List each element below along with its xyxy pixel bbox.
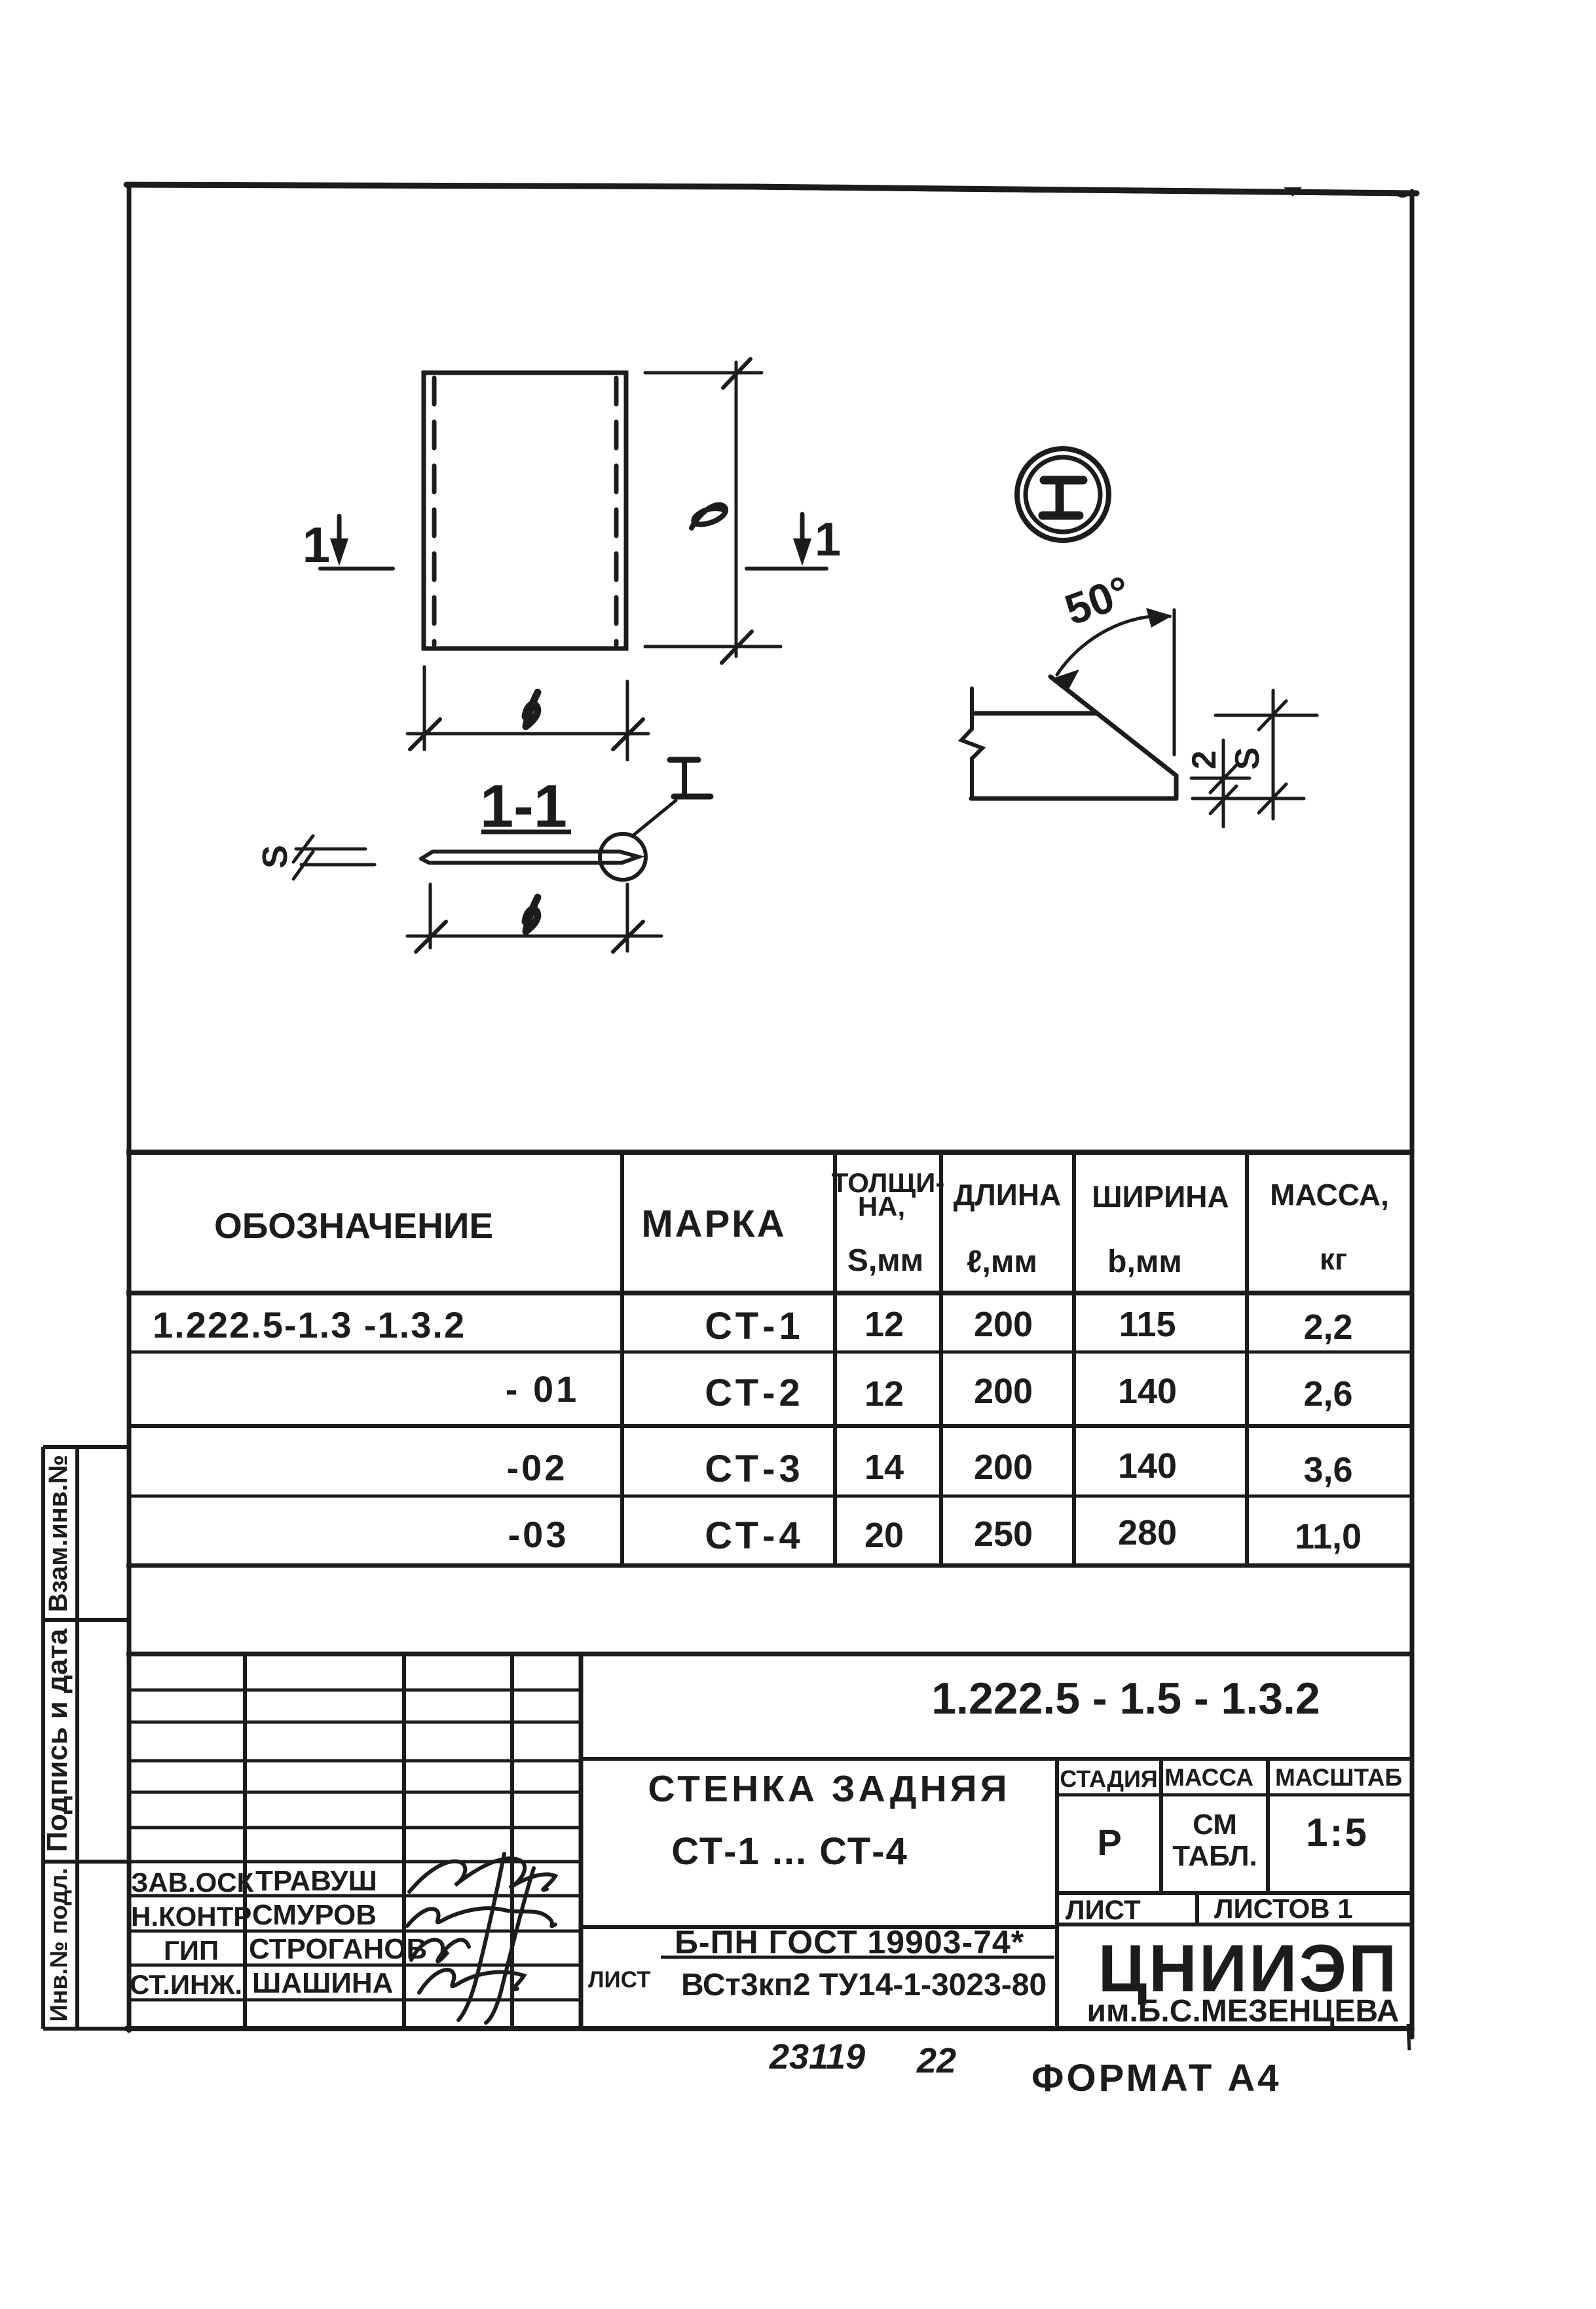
page border bottom [126,2026,1412,2031]
svg-text:200: 200 [974,1305,1033,1344]
svg-text:1: 1 [815,514,841,566]
table column line 5 [1245,1152,1249,1566]
table row line 3 [128,1495,1412,1498]
svg-text:ГИП: ГИП [164,1935,219,1966]
svg-text:ШАШИНА: ШАШИНА [252,1967,393,1999]
dimension b bottom tick right [613,922,643,952]
dimension b top tick right [613,719,643,749]
plan view rectangle [424,373,626,648]
section mark 1 right arrow [800,514,805,558]
svg-text:14: 14 [864,1448,904,1487]
svg-text:СТ-1: СТ-1 [705,1305,804,1347]
dimension S section ticks [293,836,313,862]
section label underline [481,830,571,835]
svg-text:20: 20 [864,1516,904,1555]
dimension l tick top [723,359,751,388]
svg-text:S: S [1229,747,1267,770]
stamp list row bottom [1057,1923,1412,1926]
detail label I [670,757,698,763]
svg-text:НА,: НА, [858,1191,905,1222]
detail I marker circle inner [1026,457,1100,532]
svg-text:200: 200 [974,1448,1033,1487]
plan dashed line left [432,378,437,645]
svg-text:-02: -02 [507,1447,568,1488]
svg-text:ФОРМАТ А4: ФОРМАТ А4 [1031,2057,1282,2099]
margin box bottom [43,2027,126,2031]
material fraction line [661,1956,1054,1959]
svg-text:СМУРОВ: СМУРОВ [252,1899,377,1931]
svg-text:23119: 23119 [769,2037,865,2076]
svg-text:СТ.ИНЖ.: СТ.ИНЖ. [130,1969,242,2000]
margin column inner line [75,1447,79,2029]
svg-text:ЛИСТ: ЛИСТ [1066,1894,1141,1925]
svg-text:МАСШТАБ: МАСШТАБ [1275,1764,1402,1791]
dimension b top tick left [410,719,440,749]
svg-text:1.222.5-1.3 -1.3.2: 1.222.5-1.3 -1.3.2 [153,1304,466,1345]
page border top [126,185,1417,193]
signature grid h lines [129,1689,581,1692]
svg-text:22: 22 [916,2041,956,2080]
dimension l line [735,362,738,656]
detail I marker circle outer [1017,449,1109,540]
stamp name box bottom [581,1925,1057,1929]
detail dimension extension chamfer [1191,777,1250,780]
section 1-1 plate [421,852,639,863]
svg-text:ТРАВУШ: ТРАВУШ [255,1865,377,1897]
dimension b bottom line [407,935,661,938]
chamfer detail left edge with break [961,688,982,798]
svg-text:-03: -03 [508,1514,569,1555]
title block designation row bottom [581,1757,1412,1761]
svg-text:b,мм: b,мм [1107,1245,1182,1279]
detail I marker glyph [1044,476,1083,485]
page border right [1410,191,1415,2037]
svg-text:ОБОЗНАЧЕНИЕ: ОБОЗНАЧЕНИЕ [214,1205,493,1246]
table bottom [126,1564,1412,1568]
svg-text:ЗАВ.ОСК: ЗАВ.ОСК [131,1867,254,1898]
dimension l label [692,505,726,528]
margin column outer line [41,1447,45,2029]
svg-text:Б-ПН ГОСТ 19903-74*: Б-ПН ГОСТ 19903-74* [675,1924,1024,1961]
svg-text:СТАДИЯ: СТАДИЯ [1060,1765,1158,1792]
svg-text:3,6: 3,6 [1303,1450,1352,1490]
svg-text:- 01: - 01 [506,1368,580,1410]
detail dimension S line [1272,690,1275,819]
svg-text:МАССА: МАССА [1164,1764,1253,1791]
detail dimension extension bottom [1193,797,1304,800]
svg-text:Инв.№ подл.: Инв.№ подл. [45,1868,72,2021]
svg-text:Н.КОНТР: Н.КОНТР [131,1901,251,1932]
dimension l extension top [645,371,762,375]
svg-text:ДЛИНА: ДЛИНА [954,1178,1062,1212]
svg-text:2,6: 2,6 [1303,1374,1352,1414]
angle dimension arc [1057,616,1170,675]
stamp col massa left [1159,1759,1163,1893]
svg-text:12: 12 [864,1374,904,1414]
svg-text:ВСт3кп2 ТУ14-1-3023-80: ВСт3кп2 ТУ14-1-3023-80 [681,1968,1047,2002]
chamfer detail sloped face [1050,677,1176,776]
table column line 4 [1072,1152,1076,1566]
table row line 1 [128,1351,1412,1354]
signature scribbles [407,1854,555,2023]
chamfer detail bottom edge [971,797,1176,801]
signature grid v lines [243,1654,247,2029]
page border left [127,184,132,2031]
svg-text:кг: кг [1320,1242,1347,1276]
svg-text:Взам.инв.№: Взам.инв.№ [44,1455,73,1612]
svg-text:S: S [255,845,295,869]
svg-text:115: 115 [1119,1305,1176,1344]
title block top [126,1652,1412,1657]
table header bottom [126,1291,1412,1296]
dimension b bottom extension right [626,884,629,951]
stamp list divider [1195,1893,1199,1924]
svg-text:250: 250 [974,1514,1033,1554]
svg-text:S,мм: S,мм [847,1243,923,1278]
right border bottom tick [1408,2024,1409,2050]
table column line 3 [939,1152,943,1566]
chamfer detail top edge [973,711,1096,716]
svg-text:СТРОГАНОВ: СТРОГАНОВ [249,1933,427,1965]
svg-text:СТЕНКА ЗАДНЯЯ: СТЕНКА ЗАДНЯЯ [648,1768,1010,1810]
detail circle on plate [600,834,646,880]
plan dashed line right [614,378,619,645]
dimension b top extension left [423,667,426,749]
svg-text:140: 140 [1118,1372,1177,1411]
svg-text:2: 2 [1185,751,1223,770]
svg-text:ЛИСТОВ 1: ЛИСТОВ 1 [1214,1893,1353,1924]
stamp header underline [1057,1793,1412,1797]
stamp col masshtab left [1266,1759,1270,1893]
dimension b bottom extension left [429,884,432,948]
svg-text:200: 200 [974,1372,1033,1411]
svg-text:1: 1 [303,517,330,573]
svg-text:2,2: 2,2 [1303,1307,1352,1347]
angle dimension vertical leg [1173,610,1176,755]
svg-text:280: 280 [1118,1513,1177,1552]
svg-text:ℓ,мм: ℓ,мм [967,1245,1037,1279]
dimension b bottom tick left [416,922,446,952]
dimension S section extension top [296,848,365,851]
svg-text:11,0: 11,0 [1295,1517,1362,1556]
table row line 2 [128,1424,1412,1428]
svg-text:1.222.5 - 1.5 - 1.3.2: 1.222.5 - 1.5 - 1.3.2 [931,1674,1320,1723]
stamp col stadia left [1055,1759,1059,2029]
svg-text:Р: Р [1097,1822,1121,1863]
margin box top [43,1445,129,1449]
svg-text:СТ-4: СТ-4 [705,1514,804,1557]
dimension l extension bottom [645,645,781,648]
detail dimension extension top [1216,714,1317,717]
margin box divider 1 [43,1618,129,1622]
dimension b top label [525,692,538,726]
svg-text:12: 12 [864,1305,904,1344]
svg-text:СТ-2: СТ-2 [705,1372,804,1414]
stamp values bottom [1057,1891,1412,1895]
svg-text:Подпись и дата: Подпись и дата [41,1628,73,1852]
svg-text:ШИРИНА: ШИРИНА [1092,1180,1229,1214]
chamfer detail right land [1174,776,1179,798]
dimension b top extension right [626,681,629,760]
svg-text:СТ-1 ... СТ-4: СТ-1 ... СТ-4 [671,1830,908,1873]
svg-text:СТ-3: СТ-3 [705,1448,804,1490]
margin box divider 2 [43,1860,129,1864]
dimension l tick bottom [722,631,752,663]
dimension b top line [407,732,648,736]
svg-text:им.Б.С.МЕЗЕНЦЕВА: им.Б.С.МЕЗЕНЦЕВА [1087,1994,1400,2029]
detail leader line [633,800,676,836]
svg-text:МАРКА: МАРКА [641,1203,786,1245]
svg-text:ТАБЛ.: ТАБЛ. [1172,1840,1257,1872]
svg-text:СМ: СМ [1193,1809,1237,1841]
svg-text:МАССА,: МАССА, [1270,1178,1389,1212]
dimension b bottom label [525,897,538,931]
table column line 2 [833,1152,837,1566]
table outer top [126,1150,1412,1155]
table column line 1 [620,1152,624,1566]
dimension S section extension bottom [301,863,375,867]
svg-text:1:5: 1:5 [1306,1811,1369,1854]
section mark 1 left arrow [337,516,342,558]
svg-text:ЛИСТ: ЛИСТ [588,1967,651,1993]
svg-text:140: 140 [1118,1446,1177,1486]
detail dimension 2 line [1222,740,1225,827]
